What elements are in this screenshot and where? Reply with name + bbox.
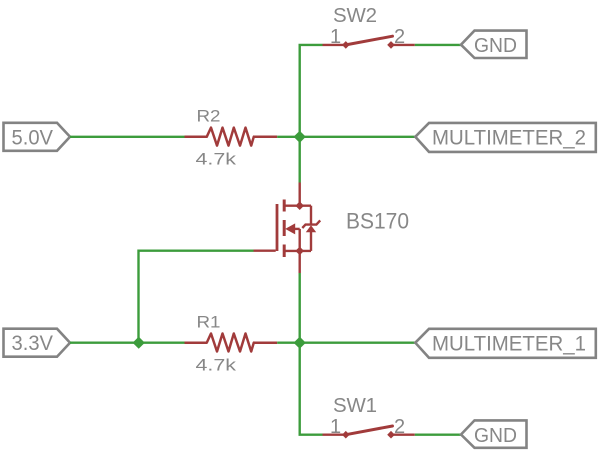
- svg-text:2: 2: [394, 416, 405, 438]
- supply flag 5.0V: [4, 123, 71, 151]
- channel bar middle (body): [283, 220, 286, 236]
- gate bar: [276, 204, 279, 251]
- svg-text:R2: R2: [197, 107, 221, 126]
- flag MULTIMETER_2: [415, 123, 596, 152]
- wire net 3.3V to R1: [70, 342, 185, 344]
- svg-text:R1: R1: [197, 312, 221, 331]
- body arrow of BS170: [285, 223, 295, 234]
- junction node at R1 / source: [294, 337, 306, 349]
- svg-text:1: 1: [330, 26, 341, 48]
- switch SW2 lever: [346, 36, 393, 45]
- ground flag GND top: [461, 31, 527, 58]
- source internal horizontal: [284, 250, 311, 252]
- source pin stub: [299, 251, 301, 273]
- gate pin stub: [254, 249, 276, 251]
- junction node gate/3.3V: [133, 337, 145, 349]
- supply flag 3.3V: [4, 329, 71, 357]
- ground flag GND bottom: [461, 420, 527, 447]
- switch SW1 lever: [346, 426, 393, 435]
- svg-text:2: 2: [394, 26, 405, 48]
- svg-text:SW1: SW1: [333, 394, 377, 417]
- resistor R2: [185, 128, 278, 146]
- svg-text:MULTIMETER_2: MULTIMETER_2: [432, 126, 586, 149]
- wire net R1 to MULTIMETER_1: [277, 342, 415, 344]
- channel bar top (drain): [283, 200, 286, 212]
- transistor BS170: [254, 183, 312, 274]
- wire net R2 to MULTIMETER_2: [277, 136, 415, 138]
- svg-text:3.3V: 3.3V: [12, 332, 54, 355]
- switch SW2 pin stub right: [391, 44, 415, 46]
- right branch vertical to zener: [310, 206, 312, 225]
- wire net SW2 left corner: [300, 45, 323, 137]
- drain internal horizontal: [284, 204, 311, 206]
- switch SW2 contact dot pin 1: [342, 41, 350, 49]
- pin junction source: [295, 247, 304, 256]
- svg-text:5.0V: 5.0V: [12, 126, 54, 149]
- switch SW2 pin stub left: [323, 44, 346, 46]
- svg-text:GND: GND: [474, 424, 517, 447]
- flag MULTIMETER_1: [415, 329, 596, 358]
- wire net to GND bottom: [415, 434, 461, 436]
- switch SW2 contact dot pin 2: [387, 41, 395, 49]
- junction node at R2 / drain: [294, 131, 306, 143]
- svg-text:SW2: SW2: [333, 4, 377, 27]
- body connection to source: [295, 228, 300, 230]
- svg-text:1: 1: [330, 416, 341, 438]
- switch SW1 pin stub right: [391, 434, 415, 436]
- svg-text:4.7k: 4.7k: [196, 150, 237, 169]
- channel bar bottom (source): [283, 245, 286, 258]
- zener diode (body diode) of BS170: [302, 220, 320, 228]
- wire net source to SW1: [300, 343, 323, 435]
- switch SW1 pin stub left: [323, 434, 346, 436]
- switch SW1 contact dot pin 2: [387, 431, 395, 439]
- svg-text:GND: GND: [474, 34, 517, 57]
- wire net gate to left: [139, 251, 254, 343]
- switch SW1 contact dot pin 1: [342, 431, 350, 439]
- svg-text:BS170: BS170: [346, 208, 409, 233]
- wire net 5.0V to R2: [70, 136, 185, 138]
- svg-text:MULTIMETER_1: MULTIMETER_1: [432, 332, 586, 355]
- drain pin stub: [299, 183, 301, 206]
- svg-text:4.7k: 4.7k: [196, 356, 237, 375]
- wire net source down: [299, 273, 301, 343]
- pin junction drain: [295, 201, 304, 210]
- wire net to GND top: [415, 44, 461, 46]
- resistor R1: [185, 334, 278, 352]
- wire net junction to drain pin: [299, 137, 301, 183]
